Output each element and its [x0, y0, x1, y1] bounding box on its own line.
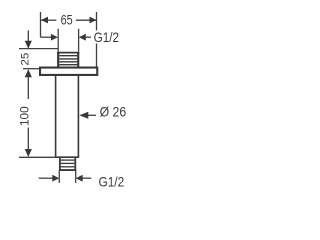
svg-text:G1/2: G1/2 [99, 174, 125, 190]
svg-text:100: 100 [18, 106, 32, 126]
svg-text:25: 25 [20, 53, 32, 66]
svg-text:Ø 26: Ø 26 [100, 104, 127, 120]
svg-text:G1/2: G1/2 [94, 29, 120, 45]
svg-text:65: 65 [61, 11, 73, 27]
